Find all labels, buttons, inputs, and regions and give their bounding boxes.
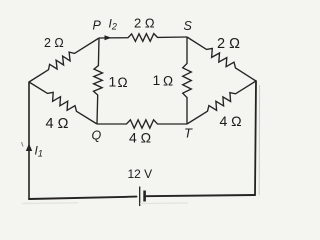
arrow I2 current direction at node P [105,35,112,40]
ghost scan line right of right wire (decorative) [258,85,260,195]
svg-text:1: 1 [153,72,161,88]
battery 12V long plate (positive) [139,187,141,207]
battery 12V short plate (negative) [143,191,146,202]
wire bottom left segment to battery [29,197,137,199]
wire right side (node R down to bottom-right corner) [255,81,256,195]
svg-text:2 Ω: 2 Ω [134,16,155,31]
arrow I1 current direction on left wire [26,144,32,152]
wire bottom right segment from battery [146,195,256,196]
resistor 2 ohm top-left diagonal (node L to node P) [29,38,99,82]
resistor 1 ohm left vertical (node P to node Q) [94,38,103,124]
svg-text:2 Ω: 2 Ω [44,36,64,50]
resistor 2 ohm top middle (node P to node S) [99,34,187,42]
svg-text:4 Ω: 4 Ω [129,130,151,146]
wire left side (node L down to bottom-left corner) [28,82,30,199]
resistor 2 ohm top-right diagonal (node S to node R) [187,37,256,81]
svg-text:4 Ω: 4 Ω [46,116,69,132]
resistor 4 ohm bottom-right diagonal (node T to node R) [187,81,256,124]
svg-text:S: S [184,19,193,33]
resistor 1 ohm right vertical (node S to node T) [183,37,192,124]
svg-text:T: T [184,126,193,141]
svg-text:Ω: Ω [118,75,128,90]
resistor 4 ohm bottom-left diagonal (node L to node Q) [29,82,97,124]
svg-text:Q: Q [92,129,102,143]
svg-text:1: 1 [109,74,117,90]
svg-text:Ω: Ω [163,73,173,88]
resistor 4 ohm bottom middle (node Q to node T) [97,120,187,128]
svg-text:4 Ω: 4 Ω [220,113,242,129]
svg-text:2 Ω: 2 Ω [217,36,240,52]
svg-text:12 V: 12 V [128,167,153,181]
svg-text:P: P [93,19,102,33]
